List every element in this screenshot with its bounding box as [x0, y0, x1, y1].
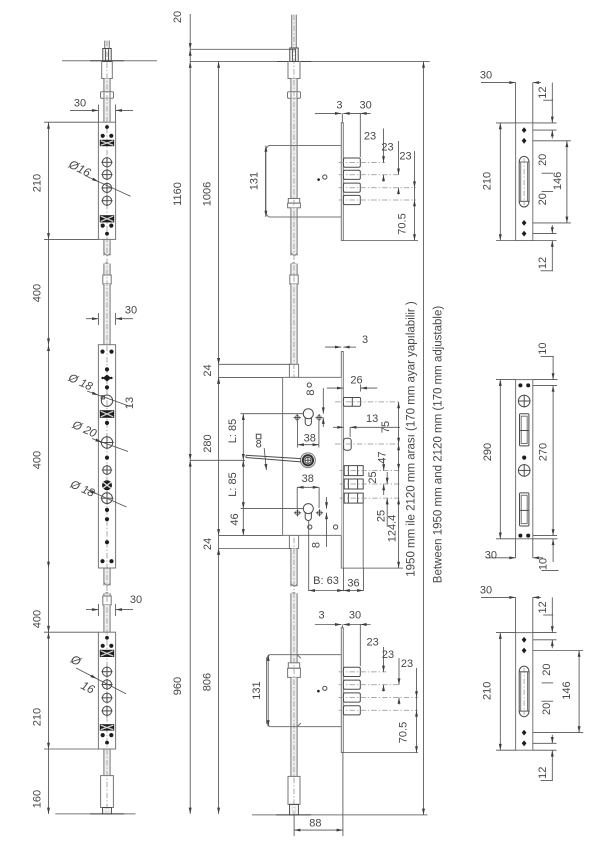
svg-text:Between 1950 mm and 2120 mm (1: Between 1950 mm and 2120 mm (170 mm adju…	[433, 306, 445, 584]
dimension 210 left upper	[48, 123, 50, 240]
svg-text:23: 23	[364, 131, 376, 143]
lower case rod chamfers	[297, 655, 301, 659]
dimension 12 bottom strike	[551, 735, 553, 744]
lower case rod nut	[288, 663, 299, 668]
left rod plate1 to plate2 with break	[104, 239, 110, 255]
dimension 13 aux latch	[333, 426, 344, 428]
dimension 25 upper	[383, 458, 385, 471]
svg-text:210: 210	[482, 172, 494, 190]
dimension 12 top strike	[551, 597, 553, 632]
middle strike screw dots top	[518, 383, 522, 387]
dimension 23 chain upper case	[383, 129, 385, 163]
main faceplate strip	[341, 352, 343, 569]
svg-text:400: 400	[32, 284, 44, 302]
dimension 12 bottom strike	[551, 225, 553, 234]
svg-text:23: 23	[399, 151, 411, 163]
svg-text:20: 20	[537, 154, 549, 166]
top frame line upper	[190, 48, 295, 50]
svg-text:290: 290	[482, 443, 494, 461]
svg-text:3: 3	[336, 100, 342, 112]
dimension 30 mid-left	[86, 318, 98, 320]
left lock plate 3 (210)	[98, 632, 115, 749]
svg-text:20: 20	[537, 193, 549, 205]
dimension 280	[219, 376, 283, 378]
upper auxiliary case faceplate	[341, 123, 343, 241]
middle strike cross screw lower	[518, 465, 530, 477]
aux latch piece	[344, 438, 352, 450]
upper case bolt pins	[344, 158, 361, 167]
svg-text:10: 10	[537, 342, 549, 354]
svg-text:30: 30	[74, 98, 86, 110]
dimension 8 lower cylinder to screw	[326, 497, 328, 509]
upper auxiliary lock case body	[266, 146, 342, 218]
middle rod nut	[288, 92, 301, 99]
svg-text:36: 36	[347, 578, 359, 590]
svg-text:12: 12	[537, 86, 549, 98]
svg-text:146: 146	[561, 681, 573, 699]
left top rod stub	[105, 41, 110, 49]
dimension 26 latch	[327, 387, 344, 389]
left rod below nut	[104, 98, 110, 122]
svg-text:23: 23	[366, 637, 378, 649]
svg-text:L: 85: L: 85	[227, 472, 239, 496]
euro cylinder lower profile	[303, 504, 313, 514]
middle bottom bolt guide	[288, 776, 300, 804]
cylinder centreline lower	[241, 508, 304, 510]
middle rod into lower case	[291, 593, 297, 663]
middle rod below upper case with break	[291, 208, 297, 256]
svg-text:30: 30	[130, 594, 142, 606]
lower auxiliary lock case body	[267, 655, 342, 727]
middle rod through upper case	[291, 98, 297, 198]
deadbolt body	[362, 503, 364, 568]
cylinder fixing screws lower	[295, 511, 299, 515]
svg-text:1160: 1160	[172, 182, 184, 206]
svg-text:3: 3	[362, 334, 368, 346]
dimension 400 lower-left	[48, 568, 50, 632]
deadbolt teeth blocks	[344, 466, 363, 476]
svg-text:146: 146	[552, 172, 564, 190]
dimension 24 upper	[219, 363, 291, 365]
dimension 146 strike	[533, 140, 571, 142]
upper case screw dot and hole	[317, 178, 320, 181]
strike plate slot	[519, 666, 529, 717]
middle top rod stub	[292, 15, 297, 48]
svg-text:8: 8	[305, 389, 317, 395]
strike plate screw holes (diamonds)	[522, 637, 527, 643]
svg-text:400: 400	[32, 610, 44, 628]
dimension 160 bottom-left	[48, 749, 50, 814]
left rod connector lower	[103, 596, 111, 605]
euro cylinder upper profile	[303, 409, 313, 419]
svg-text:30: 30	[485, 550, 497, 562]
svg-text:70.5: 70.5	[398, 722, 410, 743]
left bottom bolt guide	[101, 776, 114, 808]
left door top reference line	[62, 60, 157, 62]
svg-text:1950 mm ile 2120 mm arası (170: 1950 mm ile 2120 mm arası (170 mm ayar y…	[406, 301, 418, 577]
svg-text:280: 280	[202, 434, 214, 452]
svg-text:23: 23	[381, 142, 393, 154]
svg-text:124.4: 124.4	[387, 515, 399, 543]
label square 8 spindle	[256, 434, 261, 439]
dimension 30 top-left	[70, 109, 98, 111]
dimension 131 lower case	[267, 655, 269, 727]
svg-text:25: 25	[367, 471, 379, 483]
dimension 3 main faceplate	[325, 346, 341, 348]
middle rod below lower nut	[291, 677, 297, 776]
middle ground baseline	[252, 814, 427, 816]
svg-text:12: 12	[537, 767, 549, 779]
dimension 12 top strike	[551, 83, 553, 123]
svg-text:26: 26	[350, 375, 362, 387]
left rod plate2 to plate3 with break	[104, 568, 110, 585]
svg-text:210: 210	[32, 174, 44, 192]
svg-text:160: 160	[32, 790, 44, 808]
dimension 24 lower	[219, 548, 291, 550]
dimension 30 strike plate	[481, 596, 516, 598]
svg-text:70.5: 70.5	[397, 213, 409, 234]
left lock plate 1 (210)	[98, 122, 115, 239]
dimension 270 middle strike	[552, 385, 554, 535]
cylinder fixing screws upper	[295, 416, 299, 420]
dimension 400 middle-left	[48, 345, 50, 568]
dimension 210 lower-left	[48, 632, 50, 749]
dimension 10 bottom middle strike	[552, 539, 555, 545]
left column centreline	[106, 41, 108, 814]
left rod above nut	[104, 79, 110, 92]
middle strike slot upper	[520, 414, 529, 446]
dimension 131 upper case	[265, 146, 267, 218]
svg-text:30: 30	[480, 70, 492, 82]
svg-text:806: 806	[202, 673, 214, 691]
lower case screw dot and hole	[317, 690, 320, 693]
svg-text:30: 30	[359, 100, 371, 112]
middle rod collar above main case	[289, 364, 298, 377]
lower assembly faceplate	[341, 628, 343, 753]
handle lever	[246, 455, 301, 458]
dimension 3 and 30 upper case	[315, 112, 341, 114]
middle strike plate body	[516, 380, 533, 539]
main case cylinder screw hole upper	[307, 383, 311, 387]
middle top bolt tip	[290, 48, 298, 62]
dimension 3 and 30 lower case	[315, 624, 341, 626]
handle hub follower	[301, 453, 316, 468]
dimension 290 middle strike	[499, 380, 501, 539]
svg-text:20: 20	[172, 11, 184, 23]
middle top bolt guide	[288, 62, 300, 79]
hub centreline	[190, 459, 245, 461]
dimension 124.4	[397, 498, 400, 504]
strike plate screw holes (diamonds)	[522, 127, 527, 133]
overall adjustable range dimension line	[423, 62, 425, 815]
dimension 88	[293, 815, 295, 836]
svg-text:23: 23	[401, 658, 413, 670]
dimension 38 upper	[297, 421, 299, 448]
svg-text:270: 270	[538, 443, 550, 461]
svg-text:24: 24	[202, 538, 214, 550]
main case lower screw holes	[308, 525, 312, 529]
dimension 23 chain lower case	[383, 647, 385, 672]
svg-text:960: 960	[172, 677, 184, 695]
svg-text:88: 88	[309, 818, 321, 830]
svg-text:30: 30	[349, 610, 361, 622]
dimension 30 bottom-left	[86, 609, 98, 611]
dimension 146 strike	[533, 650, 583, 652]
left bottom rod	[104, 749, 110, 776]
svg-text:10: 10	[538, 558, 550, 570]
left rod nut	[101, 92, 114, 99]
middle column centreline	[293, 15, 295, 815]
middle rod above nut	[291, 79, 297, 92]
left ground baseline	[55, 813, 135, 815]
upper case rod collar	[288, 199, 299, 204]
left bottom bolt tip	[103, 808, 112, 814]
left lock plate 2 (400)	[98, 345, 115, 568]
svg-text:131: 131	[251, 681, 263, 699]
svg-text:1006: 1006	[202, 182, 214, 206]
dimension 30 strike plate	[481, 82, 516, 84]
svg-text:L: 85: L: 85	[227, 419, 239, 443]
left rod connector upper	[103, 275, 111, 284]
svg-text:30: 30	[125, 305, 137, 317]
svg-text:210: 210	[482, 682, 494, 700]
svg-text:12: 12	[537, 257, 549, 269]
svg-text:38: 38	[304, 433, 316, 445]
svg-text:12: 12	[537, 601, 549, 613]
middle rod collar below main case	[289, 535, 298, 548]
svg-text:38: 38	[302, 473, 314, 485]
svg-text:47: 47	[376, 451, 388, 463]
dimension 210 strike plate	[499, 123, 501, 241]
left top bolt tip	[103, 49, 111, 62]
strike plate 210 body	[516, 123, 533, 241]
middle strike slot lower	[520, 493, 529, 526]
middle rod connector	[290, 275, 298, 284]
svg-text:3: 3	[319, 610, 325, 622]
svg-text:210: 210	[32, 708, 44, 726]
latch bolt	[344, 398, 361, 407]
strike plate 210 body	[516, 633, 533, 751]
svg-text:131: 131	[249, 172, 261, 190]
dimension 25 lower	[386, 472, 388, 484]
svg-text:20: 20	[541, 663, 553, 675]
svg-text:30: 30	[480, 584, 492, 596]
svg-text:8: 8	[311, 542, 323, 548]
left top bolt guide	[102, 62, 113, 79]
svg-text:13: 13	[366, 413, 378, 425]
svg-text:B: 63: B: 63	[313, 575, 339, 587]
dimension 400 upper-left	[48, 239, 50, 344]
svg-text:8: 8	[256, 439, 262, 451]
cylinder centreline upper	[241, 413, 304, 415]
top frame line lower (door top)	[190, 61, 430, 63]
middle strike cross screw upper	[518, 395, 530, 407]
middle strike dot	[522, 456, 526, 460]
main lock case body	[283, 377, 342, 535]
svg-text:23: 23	[382, 649, 394, 661]
svg-text:20: 20	[541, 703, 553, 715]
middle strike screw dots bottom	[518, 534, 522, 538]
svg-text:400: 400	[32, 451, 44, 469]
dimension 210 strike plate	[499, 633, 501, 751]
lower case bolt pins	[344, 667, 361, 676]
middle rod below main case with break	[291, 549, 297, 587]
svg-text:13: 13	[124, 397, 136, 409]
middle bottom bolt tip	[290, 804, 299, 815]
strike plate slot	[519, 156, 529, 207]
svg-text:46: 46	[229, 513, 241, 525]
svg-text:75: 75	[380, 421, 392, 433]
svg-text:24: 24	[202, 364, 214, 376]
